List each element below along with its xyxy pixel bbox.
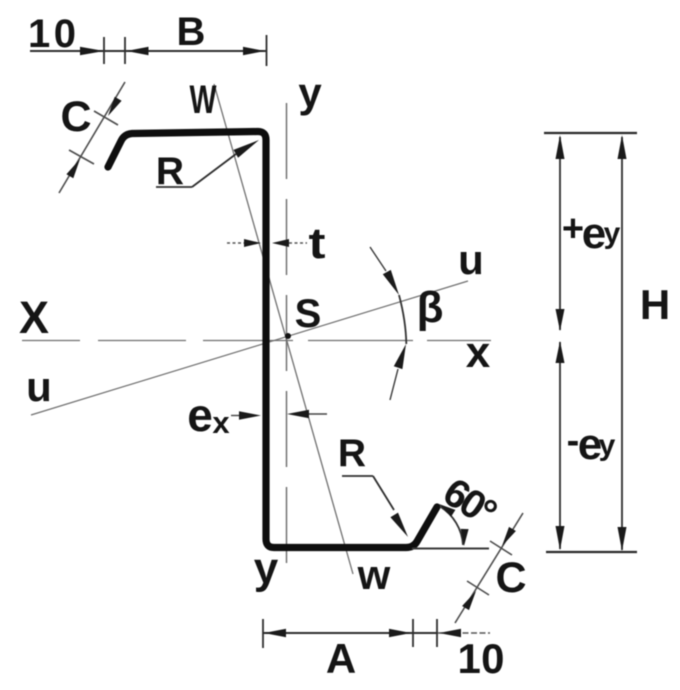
leader R top underline — [156, 186, 192, 188]
svg-text:y: y — [599, 429, 616, 462]
arrow -ey bottom — [556, 526, 565, 550]
dim A main line — [263, 632, 437, 634]
svg-text:β: β — [417, 283, 444, 332]
arrow B left — [127, 47, 149, 55]
tick A left — [262, 619, 264, 648]
leader R bottom underline — [342, 475, 373, 477]
arrow B right — [243, 47, 265, 55]
tick A right — [412, 619, 414, 647]
arrow A right — [389, 629, 411, 637]
arrow C-bot lower — [462, 591, 476, 610]
node u-axis diagonal — [31, 281, 468, 415]
dim ex right tail — [309, 413, 327, 415]
svg-text:u: u — [26, 363, 52, 410]
arrow C-top lower — [66, 159, 80, 178]
svg-text:e: e — [582, 209, 606, 258]
tick 10-top left — [103, 37, 105, 64]
beta arc tail top — [370, 247, 386, 271]
wire flange bottom extension — [412, 548, 489, 550]
tick B right — [266, 35, 268, 66]
arrow -ey top — [556, 341, 565, 363]
dim t leader left dashes — [227, 242, 244, 244]
tick C-bot lower — [467, 581, 489, 595]
arrow +ey bottom — [556, 309, 565, 331]
svg-text:R: R — [338, 432, 366, 475]
dim -ey line — [559, 342, 561, 549]
dim t leader right dashes — [289, 242, 307, 244]
svg-text:y: y — [604, 217, 621, 250]
arrow ex left — [239, 411, 261, 419]
svg-text:10: 10 — [458, 635, 505, 682]
leader R top diagonal — [192, 154, 236, 187]
arrow H bottom — [618, 527, 627, 551]
leader R bottom diagonal — [373, 476, 394, 510]
arrow t right — [272, 239, 289, 247]
svg-text:B: B — [177, 10, 206, 54]
arrow C-top upper — [108, 97, 122, 116]
wire H bottom extension — [546, 551, 637, 553]
arrow A left — [264, 629, 286, 637]
wire w-line diagonal thin — [214, 84, 353, 574]
tick 10-bottom right — [436, 619, 438, 647]
tick C-bot upper — [490, 541, 512, 555]
wire H top extension — [544, 132, 637, 134]
svg-text:y: y — [298, 69, 322, 116]
arrow beta bottom — [394, 344, 406, 369]
svg-text:t: t — [309, 219, 326, 268]
arrow +ey top — [556, 135, 565, 159]
svg-text:R: R — [156, 150, 184, 193]
arrow R-bottom — [390, 513, 408, 537]
arrow t left — [244, 239, 261, 247]
dim 10-top/B main line — [30, 50, 267, 52]
arrow 10-bottom — [439, 629, 461, 637]
arc 60deg angle — [440, 507, 463, 546]
svg-text:y: y — [254, 544, 279, 593]
arrow 60 bottom — [461, 529, 469, 546]
profile Z-section outline — [108, 132, 437, 548]
arrow R-top — [234, 140, 260, 158]
node y-axis dashed vertical — [286, 103, 288, 583]
beta arc middle — [399, 295, 406, 344]
svg-text:w: w — [357, 551, 391, 598]
arrow ex right — [287, 410, 309, 418]
svg-text:A: A — [326, 635, 356, 682]
arrow 10-top right — [80, 47, 104, 55]
svg-text:X: X — [19, 292, 49, 343]
svg-text:u: u — [458, 236, 484, 283]
svg-text:x: x — [212, 405, 230, 440]
dim H line — [621, 137, 623, 550]
svg-text:S: S — [295, 292, 322, 336]
svg-text:H: H — [640, 281, 670, 328]
svg-text:e: e — [187, 389, 213, 441]
beta arc tail bottom — [390, 369, 398, 400]
arrow C-bot upper — [502, 527, 516, 546]
dim ex arrow leader — [231, 415, 241, 417]
tick 10-top right — [124, 37, 126, 64]
node x-axis horizontal — [22, 340, 491, 342]
tick C-top upper — [94, 111, 118, 125]
dim C bottom oblique line — [455, 513, 523, 623]
arrow H top — [618, 135, 627, 159]
arrow beta top — [383, 270, 399, 295]
arrow 60 top — [439, 504, 455, 517]
dim A trailing dashes — [437, 632, 490, 634]
svg-text:C: C — [495, 554, 526, 602]
dim C top-left oblique line — [59, 82, 125, 193]
tick C-top lower — [69, 150, 94, 164]
svg-text:W: W — [190, 78, 217, 122]
node S centroid dot — [285, 333, 291, 339]
svg-text:x: x — [466, 328, 491, 377]
dim +ey line — [559, 137, 561, 330]
svg-text:C: C — [60, 93, 91, 141]
